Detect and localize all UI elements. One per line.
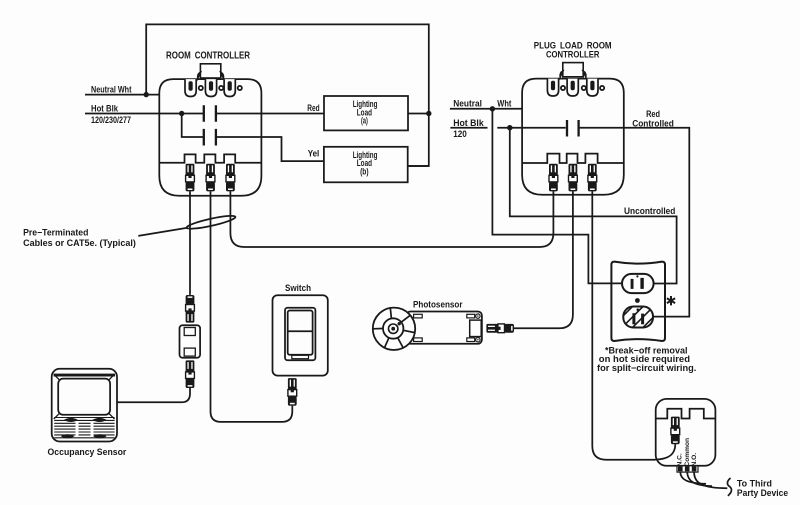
photosensor mount slots	[414, 314, 423, 318]
bottom socket dot	[637, 308, 640, 311]
occupancy sensor top bar	[54, 374, 116, 377]
wire red controlled	[579, 128, 690, 317]
switch rocker	[288, 311, 313, 355]
svg-text:Hot Blk: Hot Blk	[453, 118, 484, 128]
plug load room controller U2 box	[522, 79, 624, 195]
terminal circle 1	[199, 86, 203, 90]
node hot junction inside U1	[179, 111, 184, 116]
room controller jack divider with notches	[159, 154, 261, 162]
svg-text:Yel: Yel	[308, 149, 320, 159]
photosensor rj45 plug	[486, 324, 514, 333]
wire red output to lighting load a	[216, 113, 324, 115]
photosensor head small circle	[389, 324, 398, 333]
U2 terminal circle 3	[600, 86, 604, 90]
terminal lug strip	[677, 466, 698, 472]
terminal circle 2	[219, 86, 223, 90]
switch inner frame	[285, 308, 315, 361]
U2 terminal circle 2	[582, 86, 586, 90]
photosensor head outer circle	[373, 308, 415, 350]
relay contact K1 bars	[204, 105, 216, 122]
wire hot branch down	[182, 114, 204, 138]
svg-text:(b): (b)	[360, 167, 369, 177]
U2 terminal slot 2	[567, 79, 578, 96]
terminal circle 3	[238, 86, 242, 90]
photosensor body	[406, 312, 482, 344]
coupler jack opening top	[184, 328, 195, 336]
photosensor center dot	[391, 327, 395, 331]
svg-text:Pre−Terminated: Pre−Terminated	[23, 227, 88, 237]
asterisk star	[667, 296, 675, 305]
node U2 neutral junction	[490, 106, 495, 111]
louver breaks	[76, 422, 79, 437]
U2 jack divider with notches	[522, 154, 624, 163]
rj45 plug P3 in U1	[226, 164, 235, 192]
U2 neutral feed	[450, 108, 522, 110]
bezel mitre lines	[54, 374, 115, 419]
third party jack shelf	[656, 409, 716, 419]
svg-text:Uncontrolled: Uncontrolled	[624, 206, 675, 216]
cable U2-P3 to third party device	[592, 191, 655, 460]
coupler bottom plug	[186, 360, 195, 388]
wire lighting load b right	[408, 165, 429, 167]
cable photosensor to U2-P2	[514, 191, 573, 328]
labels N.C. / Common / N.O.	[677, 438, 698, 467]
node U2 hot junction	[507, 125, 512, 130]
cable U1-P3 to U2 link	[230, 191, 553, 247]
coupler box	[180, 325, 201, 357]
wire neutral top loop to loads	[146, 24, 429, 166]
lighting load b box	[324, 147, 408, 183]
switch wall plate	[273, 295, 328, 375]
room controller terminal slot 2	[205, 79, 216, 96]
bottom socket slots	[632, 313, 635, 324]
svg-text:N.O.: N.O.	[691, 453, 698, 467]
svg-text:Controlled: Controlled	[632, 119, 674, 129]
relay contact K3 bars	[567, 120, 579, 137]
leader line to callout	[138, 228, 187, 236]
photosensor spokes	[373, 308, 414, 348]
U2 terminal slot 3	[587, 79, 598, 96]
wire yel output	[216, 137, 324, 161]
svg-text:Red: Red	[307, 103, 319, 113]
third party device box	[656, 399, 716, 466]
rj45 plug P1 in U2	[549, 164, 558, 192]
rj45 plug P1 in U1	[186, 164, 195, 192]
svg-text:Party Device: Party Device	[737, 488, 788, 498]
svg-text:for split−circuit wiring.: for split−circuit wiring.	[597, 363, 696, 373]
U2 terminal circle 1	[561, 86, 565, 90]
svg-text:Red: Red	[646, 109, 660, 119]
third party rj45 plug	[671, 417, 680, 445]
node neutral junction	[144, 92, 149, 97]
continuation squiggle	[727, 478, 731, 496]
rj45 plug P2 in U2	[569, 164, 578, 192]
top socket dot	[636, 275, 638, 277]
occupancy sensor body	[52, 369, 117, 442]
svg-text:Neutral: Neutral	[453, 98, 482, 108]
cables lasso ellipse	[186, 213, 236, 231]
relay contact K2 bars	[204, 129, 216, 146]
wire lighting load a right	[408, 113, 429, 115]
svg-text:Photosensor: Photosensor	[413, 299, 463, 309]
photosensor offset dot	[398, 322, 401, 325]
switch rj45 plug	[288, 378, 297, 406]
room controller terminal slot 3	[224, 79, 235, 96]
photosensor jack housing	[470, 320, 482, 337]
top socket slots	[631, 279, 634, 289]
coupler jack opening bottom	[184, 348, 195, 356]
node loads neutral junction	[426, 111, 431, 116]
U2 hot label underline	[450, 127, 487, 129]
svg-text:Wht: Wht	[497, 98, 511, 108]
svg-text:(a): (a)	[361, 116, 368, 126]
coupler top plug	[186, 295, 195, 323]
receptacle plate	[611, 262, 665, 341]
cable coupler to occupancy sensor	[117, 388, 190, 402]
U2 hot feed	[497, 127, 565, 129]
bottom socket hatch	[604, 295, 676, 335]
svg-text:Switch: Switch	[285, 283, 311, 293]
U2 terminal slot 1	[547, 79, 558, 96]
switch rocker split	[288, 330, 313, 332]
occupancy sensor screen	[58, 379, 110, 415]
svg-text:Common: Common	[684, 438, 691, 467]
room controller terminal slot 1	[185, 79, 196, 96]
receptacle screw	[635, 298, 640, 303]
svg-text:ROOM CONTROLLER: ROOM CONTROLLER	[166, 51, 251, 62]
svg-text:Neutral Wht: Neutral Wht	[91, 85, 132, 95]
rj45 plug P2 in U1	[206, 164, 215, 192]
wire neutral feed left	[85, 94, 159, 96]
room controller U1 box	[159, 79, 261, 196]
cable inside third party device	[655, 444, 675, 460]
photosensor screws	[476, 314, 480, 318]
svg-text:120/230/277: 120/230/277	[91, 115, 131, 125]
cable U1-P2 to switch	[211, 191, 293, 422]
cable U1-P1 to coupler	[189, 191, 191, 295]
louver eyebrow marks	[64, 418, 78, 422]
svg-text:Cables or CAT5e. (Typical): Cables or CAT5e. (Typical)	[23, 238, 136, 248]
switch rocker bottom bar	[292, 355, 309, 358]
svg-text:Hot Blk: Hot Blk	[91, 104, 119, 114]
wires to third party	[680, 472, 706, 484]
room controller tab	[198, 64, 224, 78]
svg-text:CONTROLLER: CONTROLLER	[546, 50, 600, 60]
receptacle bottom socket	[623, 307, 653, 328]
wire neutral drop to receptacle	[492, 109, 622, 284]
wire uncontrolled hot	[510, 128, 677, 284]
wire hot feed left	[85, 113, 204, 115]
photosensor head middle circle	[383, 318, 403, 338]
receptacle top socket	[622, 274, 654, 293]
rj45 plug P3 in U2	[588, 164, 597, 192]
U2 tab	[560, 63, 586, 77]
svg-text:N.C.: N.C.	[677, 453, 684, 466]
svg-text:120: 120	[453, 129, 467, 139]
svg-text:Occupancy Sensor: Occupancy Sensor	[48, 447, 127, 457]
louver lines	[54, 418, 114, 438]
lighting load a box	[324, 96, 408, 130]
